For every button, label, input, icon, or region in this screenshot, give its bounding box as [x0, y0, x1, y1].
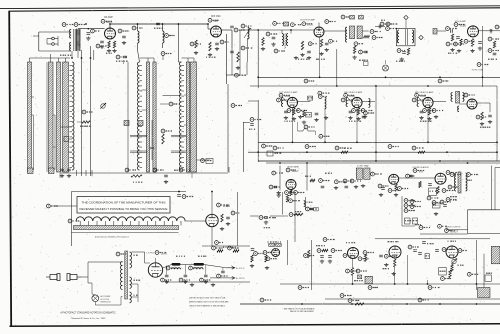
- part ref circle T4 top: [341, 15, 352, 19]
- part ref circle tk2: [318, 91, 330, 95]
- wire mid rail x305: [305, 197, 307, 210]
- wire bus to V2 grid: [208, 24, 211, 29]
- takeoff coil V5: [325, 97, 327, 109]
- wire V15 down: [352, 259, 354, 285]
- part ref circle V10b: [442, 189, 453, 193]
- trimmer capacitor C10: [100, 103, 106, 109]
- ground R5: [208, 53, 212, 57]
- part ref circle ao left: [438, 224, 447, 228]
- wire rail x311: [310, 240, 312, 290]
- part ref circle V10: [446, 171, 457, 175]
- label 6.3V winding: [134, 279, 141, 281]
- part ref circle m a: [446, 42, 456, 46]
- speaker box right edge: [495, 168, 500, 197]
- capacitor C63c: [379, 255, 383, 257]
- wire b+ drop x427: [427, 280, 429, 284]
- wire rail y284: [280, 283, 500, 285]
- svg-text:USED POINTS MARKED X SEE DETAI: USED POINTS MARKED X SEE DETAILS.: [189, 305, 226, 308]
- label trap adj2: [381, 19, 385, 21]
- wire fine tuning down: [247, 38, 249, 62]
- boxed label mid: [314, 208, 319, 211]
- switch wafer SW1B: [49, 62, 54, 172]
- input transformer T3: [282, 34, 288, 50]
- svg-text:1ST PIX IF AMP: 1ST PIX IF AMP: [300, 19, 316, 22]
- ground mid a: [320, 260, 324, 264]
- resistor cathode V7: [428, 108, 430, 115]
- focus coil box: [478, 288, 491, 298]
- wire wafer top tie A: [30, 54, 71, 62]
- detector transformer coil R: [463, 93, 465, 102]
- boxed part small: [358, 275, 362, 279]
- part ref circle V3: [302, 22, 312, 26]
- coil peaking mid: [304, 201, 306, 207]
- wire delay to sync tube: [184, 220, 205, 222]
- trap transformer left: [356, 168, 362, 179]
- junction dot at 179,191.5: [178, 191, 180, 193]
- svg-text:RF AMP: RF AMP: [104, 16, 113, 19]
- part ref circle k1 V6: [352, 109, 363, 113]
- label b plus right: [223, 246, 236, 248]
- part ref circle V16a: [384, 254, 395, 258]
- ground a V6: [348, 116, 352, 120]
- transformer T1 secondary spring winding: [77, 29, 81, 51]
- svg-text:6AU6: 6AU6: [307, 24, 314, 27]
- transformer T6 box: [396, 28, 415, 46]
- ground sound a: [379, 193, 383, 197]
- part ref circle ta1: [380, 22, 391, 26]
- value labels V5: [284, 120, 295, 122]
- wire rail y299: [325, 298, 500, 300]
- part ref circle V15a: [343, 254, 354, 258]
- ground mid b: [328, 260, 332, 264]
- delay line coil row: [76, 217, 185, 221]
- T11 primary: [455, 173, 457, 191]
- label mid row: [316, 245, 325, 247]
- part ref circle mid cap: [306, 207, 317, 211]
- label R30: [344, 147, 352, 149]
- part ref circle R76: [228, 246, 239, 250]
- wire transformer drop: [71, 51, 73, 58]
- takeoff coil V6: [369, 99, 371, 108]
- svg-text:* SEE PARTS LIST FOR ALTERNAT: * SEE PARTS LIST FOR ALTERNATE: [283, 307, 316, 310]
- wire vertical x228: [227, 84, 229, 172]
- label 16B type: [223, 204, 230, 208]
- switch wafer SW2B: [153, 62, 156, 172]
- part ref circle C51: [182, 195, 193, 199]
- value label C6: [154, 27, 163, 29]
- tube ref V2 circle: [208, 18, 219, 22]
- wire row2 bus y152: [248, 151, 497, 153]
- ground mid left: [277, 194, 281, 198]
- value label t6: [396, 60, 405, 62]
- part ref circle tk1: [318, 95, 327, 99]
- part ref circle R65a: [346, 269, 358, 273]
- wire V2 plate right: [222, 30, 233, 48]
- wire B taps: [142, 90, 147, 110]
- wire right rail x484: [483, 254, 485, 290]
- wire B+ bus y304: [240, 303, 500, 305]
- label 3RD VIDEO IF AMP: [415, 91, 434, 94]
- resistor R62 mid: [308, 250, 310, 258]
- part ref circle y173 a: [153, 168, 164, 172]
- tube ref V7 circle: [415, 93, 426, 97]
- part ref circle peak3: [350, 179, 361, 183]
- wire hop drops: [298, 122, 316, 135]
- wire V9 to V10: [399, 177, 435, 179]
- boxed ref a: [284, 22, 289, 26]
- wire right col x495 cont: [494, 196, 496, 210]
- part ref circle L3: [165, 34, 175, 38]
- label agc: [270, 217, 277, 219]
- capacitor bypass V5: [284, 111, 288, 113]
- ground C2: [86, 37, 90, 41]
- part ref circle V8: [286, 168, 296, 172]
- wire y77 right: [375, 76, 500, 78]
- ground v5 r3: [324, 116, 328, 120]
- junction dot at 110,24: [109, 23, 111, 25]
- part ref circle lad5: [410, 205, 421, 209]
- label MIXER OSC: [211, 16, 221, 18]
- wire V12 top: [211, 192, 213, 215]
- part ref circle V14a: [263, 251, 275, 255]
- transformer T1 lower primary coil: [70, 43, 72, 52]
- junction dot at 407,304: [406, 303, 408, 305]
- ground agc mid: [264, 221, 268, 225]
- tube V14 horizontal drive: [272, 249, 280, 257]
- choke L7 winding: [172, 268, 181, 270]
- resistor R67 below V17: [451, 265, 453, 272]
- ground peak b: [354, 185, 358, 189]
- ground under R1: [107, 49, 111, 53]
- ground R15: [352, 56, 356, 60]
- capacitor C15 wafer bottom: [67, 169, 71, 171]
- ground b V5: [292, 117, 296, 121]
- trap transformer T5 core: [357, 26, 362, 39]
- label 1ST VIDEO IF AMP: [279, 91, 298, 94]
- label y173: [174, 169, 183, 171]
- value label m: [448, 52, 457, 54]
- svg-text:VALUE OR REPLACEMENT: VALUE OR REPLACEMENT: [290, 310, 315, 313]
- part ref circle lad1: [404, 199, 415, 203]
- part ref circle coil V5: [277, 98, 287, 102]
- wire mid x192 drop: [191, 173, 193, 178]
- ground C62: [204, 280, 208, 284]
- boxed label V5 plate: [308, 96, 313, 100]
- circle-x device: [383, 60, 389, 71]
- junction dot at 467.5,163: [467, 162, 469, 164]
- junction dot at 376,86: [375, 85, 377, 87]
- capacitor C22: [307, 51, 311, 53]
- part ref circle bus y142 a: [319, 134, 330, 138]
- junction dot at 427.5,284: [427, 283, 429, 285]
- part ref circle V17a: [442, 248, 451, 252]
- resistor R30 on bus: [341, 151, 348, 153]
- tube V9 sound IF amplifier: [389, 174, 399, 184]
- part ref circle y284 b: [428, 286, 439, 290]
- part ref circle R41a: [285, 191, 295, 195]
- junction dot at 307,163: [306, 162, 308, 164]
- capacitor C46 mid: [310, 208, 314, 210]
- wire C13 drop: [151, 120, 153, 160]
- tube V16 horizontal oscillator: [389, 246, 401, 258]
- tube V5 video IF amplifier: [287, 97, 297, 107]
- svg-text:AC POWER: AC POWER: [101, 295, 111, 298]
- svg-text:LIMITED IN SECTIONS. KEY GRID: LIMITED IN SECTIONS. KEY GRID IS 25A: [189, 297, 226, 300]
- junction dot at 394.7,284: [394, 283, 396, 285]
- tube V6 video IF amplifier: [352, 97, 362, 107]
- part ref circle trap: [371, 172, 382, 176]
- resistor R31 on bus: [418, 151, 425, 153]
- junction dot at 376,161: [375, 160, 377, 162]
- test point TP2: [419, 35, 423, 39]
- part ref circle R50: [125, 168, 136, 172]
- part ref circle agc mid: [259, 216, 271, 220]
- junction dot at 292.4,142.3: [292, 141, 294, 143]
- value label video2: [305, 175, 311, 177]
- coil L4 tuner inductor ticks: [70, 66, 73, 168]
- capacitor C5 tuner: [122, 36, 126, 38]
- wire interlock leads: [92, 283, 121, 305]
- ground C60: [165, 280, 169, 284]
- wire 247 drop: [246, 62, 248, 75]
- label 4.5MC TRAP: [357, 165, 369, 168]
- junction dot at 258.2,30: [257, 29, 259, 31]
- part ref circle x233: [231, 104, 242, 108]
- resistor R18 m: [451, 34, 453, 41]
- value labels V7: [420, 120, 432, 122]
- wire rect top: [145, 258, 156, 263]
- part ref circle V14b: [266, 257, 277, 261]
- wire antenna stub: [33, 35, 39, 37]
- wire mid horizontal y173: [60, 172, 228, 174]
- part ref circle L7: [166, 266, 177, 270]
- part ref circle agc2: [438, 79, 448, 83]
- wire tap tie A2: [32, 96, 35, 98]
- wire takeoff drop: [324, 109, 326, 142]
- part ref circle R31: [412, 146, 424, 150]
- boxed label osc b: [413, 218, 418, 224]
- part ref circle y173 b: [179, 168, 190, 172]
- capacitor C65b: [418, 253, 422, 255]
- ground m a: [450, 48, 454, 52]
- value label 3300: [80, 125, 91, 127]
- antenna plug left: [46, 274, 60, 281]
- tube ref V1 circle: [101, 19, 112, 23]
- trimmer ref circle: [161, 52, 171, 56]
- wire R7 to coil: [77, 121, 91, 123]
- wire tap tie A8: [69, 151, 73, 153]
- part ref circle C50: [231, 211, 239, 215]
- part ref circle x236: [235, 73, 247, 77]
- capacitor C2 grid: [87, 33, 91, 35]
- label AC POWER: [101, 295, 111, 298]
- detector transformer coil L: [451, 93, 452, 102]
- ground v5 r2: [314, 118, 318, 122]
- value label R50: [133, 181, 142, 183]
- wire y75 left segment: [226, 30, 248, 75]
- resistor R44: [419, 182, 421, 188]
- part ref circle V10c: [448, 185, 459, 189]
- junction dot at 476.5,304: [476, 303, 478, 305]
- boxed part row2 left: [267, 151, 281, 156]
- wire V1 plate up: [109, 24, 111, 28]
- delay line ground plane bar: [74, 226, 179, 230]
- junction grid line: [88, 28, 90, 30]
- wire x232 drop: [231, 48, 233, 75]
- boxed label lr: [364, 62, 369, 66]
- part ref circle t6in: [386, 27, 397, 31]
- value label R1: [106, 52, 112, 54]
- part ref circle C44: [406, 174, 415, 178]
- part ref circle v4a: [464, 39, 475, 43]
- wire V4 plate right: [479, 30, 500, 32]
- label left edge r2: [249, 128, 255, 130]
- tube ref V12 circle: [217, 203, 228, 207]
- part ref circle V17b: [458, 249, 467, 253]
- wire tap tie A1: [32, 115, 34, 170]
- label 6BC5 type: [106, 21, 113, 24]
- part ref circle C63b: [217, 274, 228, 278]
- ground T6: [400, 58, 404, 62]
- capacitor C67b top: [422, 242, 426, 244]
- part ref circle y284 a: [298, 286, 309, 290]
- resistor R47 mid: [294, 213, 303, 215]
- wire mid link: [437, 30, 446, 32]
- part ref circle near box: [201, 159, 212, 163]
- junction dot at 90.5,58: [90, 57, 92, 59]
- capacitor C23 lr: [364, 51, 368, 53]
- label choke L7: [176, 255, 185, 257]
- wire V3 top: [318, 23, 320, 28]
- ground det a: [480, 122, 484, 126]
- wire vertical x258 spine: [257, 100, 259, 162]
- capacitor C26 m: [456, 37, 460, 39]
- value label T1: [60, 54, 71, 56]
- wire x376 vertical: [375, 86, 377, 161]
- ground b V7: [427, 117, 431, 121]
- capacitor C34 det: [488, 115, 492, 117]
- svg-text:MIX OSC: MIX OSC: [211, 16, 221, 18]
- part ref circle C12: [169, 102, 180, 106]
- resistor R60 drive: [265, 255, 267, 262]
- wire left rail x71.5: [71, 192, 73, 247]
- part ref circle in2: [291, 23, 302, 27]
- wire tap tie A5: [46, 62, 48, 172]
- label 6AU6 type: [307, 24, 314, 27]
- junction top rail: [178, 191, 180, 193]
- label 6J6 type: [214, 20, 219, 23]
- wire coil to grid V5: [283, 98, 287, 107]
- part ref circle C2: [91, 29, 100, 33]
- switch wafer SW1D: [63, 62, 69, 172]
- peaking coil in V6: [346, 98, 348, 107]
- part ref circle R14a: [308, 42, 316, 46]
- switch wafer SW1C: [57, 62, 61, 172]
- ground R4: [194, 51, 198, 55]
- part ref circle R63a: [317, 249, 328, 253]
- label 6T8 type: [419, 171, 424, 173]
- ground V16 b: [392, 272, 396, 276]
- part ref circle ml: [446, 27, 457, 31]
- vert output transformer box: [365, 276, 373, 284]
- junction dot at 212,191.5: [211, 191, 213, 193]
- AC interlock circle: [92, 295, 99, 302]
- svg-text:12AU7: 12AU7: [292, 170, 300, 173]
- resistor R9 osc: [162, 134, 164, 144]
- tube V15 vertical output: [348, 248, 359, 259]
- label tone: [415, 224, 421, 226]
- resistor R76 bleeder: [233, 250, 239, 252]
- part ref circle V15b: [358, 257, 368, 261]
- capacitor bypass V6: [349, 111, 353, 113]
- label delay line: [95, 236, 129, 239]
- part ref circle C61: [179, 278, 190, 282]
- resistor R50 mid: [131, 175, 142, 177]
- wire bleeder drops: [220, 248, 236, 251]
- part ref circle V4: [454, 23, 465, 27]
- wire left drop x60: [59, 173, 61, 178]
- wire RF plate bus y24: [110, 23, 208, 25]
- resistor R19 m: [460, 39, 462, 46]
- part ref circle V9a: [378, 184, 388, 188]
- junction L3 bus: [162, 23, 164, 25]
- note text line3: [189, 305, 226, 308]
- tube V10 first audio: [435, 173, 446, 184]
- capacitor C41: [321, 186, 325, 188]
- part ref circle out: [215, 241, 223, 245]
- resistor block R8: [124, 121, 129, 126]
- resistor R7 3300: [82, 121, 90, 123]
- wire V12 out down: [202, 227, 250, 246]
- capacitor bypass V7: [420, 111, 424, 113]
- wire mixer to IF strip: [248, 30, 258, 88]
- peaking coil in V7: [417, 98, 418, 107]
- capacitor C24 t6: [402, 52, 406, 54]
- wire tap tie B2: [130, 151, 147, 152]
- wire coil to grid V6: [348, 98, 352, 107]
- part ref circle 6T8: [413, 169, 424, 173]
- label 2ND VIDEO IF AMP: [344, 91, 363, 94]
- detector transformer core: [456, 92, 460, 104]
- wire vertical feed xA1: [81, 50, 83, 176]
- resistor R10 mixer out: [237, 52, 239, 62]
- wire V16 down: [394, 258, 396, 284]
- resistor R13 screen: [301, 41, 303, 50]
- capacitor C9 plate: [230, 26, 234, 28]
- part ref circle C20: [266, 32, 277, 36]
- ground m6: [434, 212, 438, 216]
- label VIDEO AMP: [287, 165, 299, 168]
- wire bottoms join: [77, 170, 93, 176]
- svg-text:RECEIVER MAKES IT POSSIBLE TO: RECEIVER MAKES IT POSSIBLE TO BRING YOU …: [80, 207, 168, 211]
- wire V3 cathode down: [319, 37, 321, 77]
- junction dot at 162.5,24: [162, 23, 164, 25]
- choke L8 winding: [194, 268, 204, 270]
- wire vertical x243: [243, 122, 250, 172]
- junction dot at 407.5,284: [407, 283, 409, 285]
- label trap adj: [359, 59, 368, 61]
- capacitor C40 video grid: [274, 186, 278, 188]
- junction dot at 447,152.2: [446, 151, 448, 153]
- wire mixer out down: [225, 34, 227, 84]
- part ref circle C62: [200, 278, 211, 282]
- resistor R68 b: [449, 270, 451, 278]
- coil L6 antenna inductor: [180, 62, 182, 170]
- capacitor C8 osc: [215, 43, 219, 45]
- wire long y238.8: [375, 238, 490, 240]
- notice text line2: [80, 207, 168, 211]
- resistor R20 v4: [471, 39, 473, 47]
